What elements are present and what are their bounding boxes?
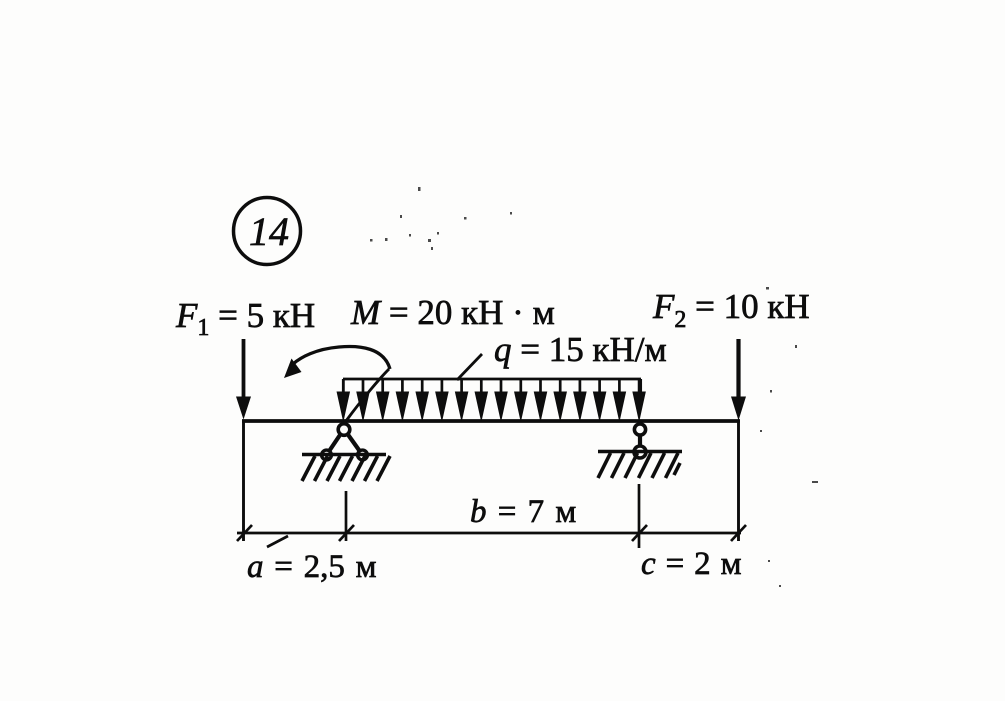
load arrow 6	[436, 379, 448, 420]
force F2 arrow	[731, 339, 746, 421]
load left edge	[342, 379, 345, 396]
extension tick below pin support	[345, 491, 348, 541]
load arrow 3	[377, 379, 389, 420]
dimension line	[237, 532, 741, 535]
dimension slash tick at right end	[731, 525, 746, 541]
load arrow 13	[574, 379, 586, 420]
pin support A legs	[327, 429, 363, 455]
dimension slash tick at pin support	[339, 525, 354, 541]
load arrow 5	[416, 379, 428, 420]
extension tick below roller support	[638, 484, 641, 548]
load arrow 8	[475, 379, 487, 420]
load arrow 4	[396, 379, 408, 420]
load right edge	[639, 379, 642, 396]
roller support B bottom circle	[634, 446, 646, 458]
moment M curved arrow	[284, 346, 390, 421]
svg-text:M = 20 кН · м: M = 20 кН · м	[350, 293, 555, 332]
extension line left end	[242, 421, 245, 541]
force F1 arrow	[236, 339, 251, 420]
svg-text:c = 2 м: c = 2 м	[641, 546, 742, 582]
scan noise specks	[370, 187, 818, 587]
roller support B top hinge circle	[634, 424, 645, 435]
leader line from q label to load	[457, 354, 482, 380]
svg-text:b = 7 м: b = 7 м	[470, 494, 576, 530]
pin support A ground line	[302, 453, 386, 456]
load arrow 9	[495, 379, 507, 420]
roller support B hatching	[598, 453, 680, 478]
problem number circle 14	[234, 198, 301, 265]
load arrow 2	[357, 379, 369, 420]
distributed load q top line	[343, 378, 641, 381]
roller support B ground line	[598, 450, 682, 453]
load arrow 15	[613, 379, 625, 420]
svg-text:q = 15 кН/м: q = 15 кН/м	[494, 330, 667, 369]
svg-text:a = 2,5 м: a = 2,5 м	[247, 549, 377, 585]
load arrow 16	[633, 379, 645, 420]
load arrow 14	[593, 379, 605, 420]
dimension slash tick at roller support	[632, 525, 647, 541]
dimension slash tick at left end	[237, 525, 252, 541]
beam	[242, 419, 740, 423]
load arrow 1	[337, 379, 349, 420]
pin support A hatching	[302, 456, 390, 481]
stray slash mark	[267, 536, 288, 547]
roller support B link	[638, 434, 642, 448]
pin support A right roller circle	[358, 450, 368, 460]
svg-text:14: 14	[249, 209, 289, 254]
load arrow 7	[455, 379, 467, 420]
load arrow 10	[515, 379, 527, 420]
pin support A hinge circle	[338, 424, 350, 436]
pin support A left roller circle	[322, 450, 332, 460]
extension line right end	[737, 421, 740, 541]
svg-text:F1 = 5 кН: F1 = 5 кН	[175, 296, 315, 341]
load arrow 11	[534, 379, 546, 420]
load arrow 12	[554, 379, 566, 420]
